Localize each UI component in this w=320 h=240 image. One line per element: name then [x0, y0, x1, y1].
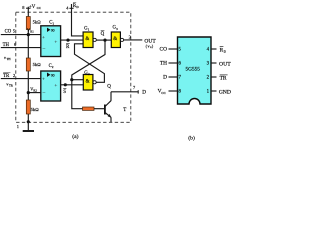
node R — [66, 39, 69, 42]
svg-text:Q: Q — [107, 84, 111, 89]
comparator C1 — [41, 26, 61, 57]
latch cross wire: Q up to G1 — [75, 44, 105, 83]
svg-text:T: T — [123, 108, 126, 113]
wire TR pin2 — [1, 78, 41, 80]
chip pin CO 5 — [169, 48, 178, 50]
svg-text:(a): (a) — [72, 133, 78, 140]
gate G1 — [83, 32, 93, 48]
chip pin TR 2 — [211, 76, 217, 78]
svg-text:D: D — [142, 89, 146, 95]
wire VR2 to C2 minus — [28, 92, 41, 94]
resistor R3 5k — [26, 100, 30, 114]
node VR2 — [27, 91, 30, 94]
node VR1 — [27, 33, 30, 36]
ground — [27, 122, 29, 130]
svg-text:5kΩ: 5kΩ — [33, 19, 42, 24]
wire R from C1 to G1 — [61, 39, 84, 41]
gate G3 — [111, 32, 120, 48]
wire S from C2 to G2 — [61, 84, 84, 86]
svg-text:(b): (b) — [188, 134, 195, 141]
svg-text:TH: TH — [160, 61, 167, 67]
svg-text:∞: ∞ — [51, 28, 55, 34]
svg-text:+: + — [54, 39, 57, 45]
svg-text:∞: ∞ — [51, 73, 55, 79]
wire OUT pin3 — [124, 39, 143, 41]
transistor T — [104, 105, 106, 115]
svg-text:R2: R2 — [33, 89, 37, 93]
node gnd junction — [27, 120, 30, 123]
svg-text:CO: CO — [5, 30, 12, 35]
svg-text:D: D — [163, 75, 167, 81]
wire CO pin5 — [1, 34, 41, 36]
chip pin RD 4 — [211, 48, 217, 50]
svg-text:+: + — [54, 83, 57, 89]
svg-text:−: − — [42, 46, 45, 52]
wire D pin7 — [111, 91, 138, 93]
resistor R1 5k — [26, 17, 30, 30]
dashed border of 555 block (a) — [16, 12, 131, 122]
svg-text:OUT: OUT — [219, 62, 231, 68]
chip pin D 7 — [169, 76, 178, 78]
svg-text:&: & — [85, 37, 89, 42]
gate G2 — [83, 75, 93, 91]
svg-text:GND: GND — [219, 90, 231, 96]
svg-text:1: 1 — [17, 124, 19, 129]
comparator C2 — [41, 71, 61, 101]
chip pin OUT 3 — [211, 62, 217, 64]
svg-text:5kΩ: 5kΩ — [31, 107, 40, 112]
svg-text:CC: CC — [161, 91, 166, 95]
reset pin 4 wire — [72, 4, 84, 36]
svg-text:&: & — [86, 79, 90, 84]
latch cross wire: Qbar down to G2 and base resistor — [72, 40, 105, 109]
svg-text:TR: TR — [220, 76, 227, 82]
svg-text:+: + — [42, 35, 45, 41]
wire resistor to base — [94, 108, 104, 110]
svg-text:+: + — [42, 77, 45, 83]
chip pin TH 6 — [169, 62, 178, 64]
divider rail — [27, 30, 29, 59]
resistor R2 5k — [26, 58, 30, 71]
svg-text:−: − — [42, 91, 45, 97]
chip pin GND 1 — [211, 90, 217, 92]
svg-text:5G555: 5G555 — [185, 66, 200, 72]
svg-text:CO: CO — [160, 47, 168, 53]
wire Qbar node to G3 — [96, 39, 111, 41]
svg-text:S: S — [63, 90, 66, 95]
Vcc pin 8 stub — [27, 7, 29, 17]
svg-text:&: & — [113, 37, 117, 42]
svg-text:+V: +V — [29, 5, 36, 10]
svg-text:2: 2 — [13, 73, 15, 78]
wire TH pin6 — [1, 47, 41, 49]
svg-text:TR: TR — [9, 84, 13, 88]
svg-text:R1: R1 — [30, 30, 34, 34]
chip pin Vcc 8 — [169, 90, 178, 92]
svg-text:5kΩ: 5kΩ — [33, 62, 42, 67]
node S — [64, 83, 67, 86]
svg-text:Q: Q — [101, 32, 105, 37]
svg-text:CC: CC — [37, 6, 41, 10]
svg-text:TH: TH — [3, 43, 10, 48]
chip 5G555 body — [178, 37, 212, 104]
svg-text:TR: TR — [3, 74, 10, 79]
node Qbar — [103, 39, 106, 42]
base resistor — [83, 107, 95, 110]
branch to G2 input — [72, 79, 84, 81]
